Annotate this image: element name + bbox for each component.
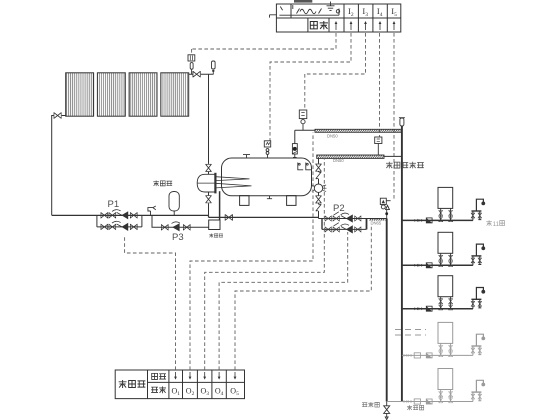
solar collector panel 1 (66, 73, 94, 116)
svg-text:DN50: DN50 (333, 158, 344, 163)
P3 drop pipe (152, 215, 209, 227)
input line I3 to makeup pipe sensor (305, 33, 366, 110)
P2 manifold left (321, 219, 323, 230)
svg-text:O3: O3 (201, 387, 210, 398)
floor branch 4 (402, 322, 485, 358)
tank drain pipe (219, 191, 221, 220)
branch 5 water heater (438, 369, 453, 390)
discharge insulation marks (369, 219, 386, 221)
floor branch 3 (402, 276, 485, 312)
valve on collector inlet (54, 113, 61, 119)
branch 5 heater stub valves (450, 390, 452, 402)
branch 2 check valve (426, 263, 432, 268)
branch 2 heater stub valves (450, 253, 452, 265)
branch 2 gate valves (414, 264, 417, 267)
level sensor LS on tank top (264, 141, 270, 158)
label 膨胀罐 (153, 181, 172, 187)
branch 4 heater stub valves (440, 343, 442, 355)
solar collector panel 4 (161, 73, 189, 116)
tank support leg right (287, 196, 296, 206)
branch 3 water heater (438, 276, 453, 297)
input row up-arrows (335, 21, 396, 30)
input line I2 to tank level sensor (270, 33, 351, 141)
label 上11层 (486, 220, 492, 226)
flexible joint upper (316, 172, 321, 179)
pipe stack riser (319, 158, 323, 218)
svg-text:O1: O1 (172, 387, 181, 398)
pipe chamber top stub (208, 172, 210, 174)
branch 3 faucet (472, 299, 474, 308)
svg-text:I5: I5 (391, 6, 397, 18)
tank top nozzle (243, 155, 250, 158)
branch 5 check valve (426, 399, 432, 404)
valve stack upper (316, 164, 322, 171)
table header labels I2 I3 I4 I5 (348, 6, 397, 18)
label 输入 (input) (310, 21, 328, 29)
P2 upper line (322, 218, 367, 220)
branch 4 pressure reducing valve (414, 353, 420, 358)
heater element cones (215, 177, 251, 188)
svg-text:DN65: DN65 (371, 221, 382, 226)
valve on tank drain line (225, 215, 232, 221)
output line O3 to pump P2 (205, 158, 325, 370)
sensor T1 above collector outlet (188, 55, 195, 74)
branch 5 heater stub valves (440, 390, 442, 402)
svg-text:P3: P3 (172, 232, 184, 243)
P3 valves (161, 225, 168, 230)
branch 2 heater stub valves (440, 253, 442, 265)
tank bottom tick (267, 196, 272, 199)
P1 manifold right (141, 215, 143, 227)
sensor T2 on makeup pipe (299, 110, 307, 130)
air vent at collector outlet (212, 61, 216, 74)
valve stack lower (316, 196, 322, 203)
sensor doodle in table header (270, 0, 340, 18)
label 控制器 (119, 380, 146, 388)
svg-text:11: 11 (493, 222, 500, 228)
pipe chamber bottom stub (208, 192, 210, 215)
svg-text:O2: O2 (186, 387, 195, 398)
controller output table frame (115, 370, 244, 399)
P2 discharge pipe (367, 218, 387, 220)
drain valve at bottom (384, 402, 390, 420)
branch 2 water heater (438, 232, 453, 253)
label 排污阀 (362, 402, 379, 407)
svg-text:DN50: DN50 (327, 134, 338, 139)
floor branch 1 (402, 187, 485, 223)
hot supply downpipe (386, 219, 388, 402)
branch 4 faucet (472, 346, 474, 355)
circulation pump (312, 184, 327, 192)
svg-text:O5: O5 (230, 387, 239, 398)
label 补液器 (209, 233, 223, 237)
solar collector panel 3 (129, 73, 157, 116)
P1 lower standby line (97, 226, 142, 228)
branch 1 water heater (438, 187, 453, 208)
pipe makeup feed down (294, 130, 296, 143)
P1 lower valves (101, 224, 108, 229)
collector outlet pipe top right (189, 74, 214, 164)
pipe branch 5 (387, 401, 473, 403)
branch 1 gate valves (414, 219, 417, 222)
solar collector panel 2 (97, 73, 125, 116)
heater flange (214, 173, 216, 194)
label 编号 (151, 386, 166, 393)
floor branch 2 (402, 232, 485, 267)
label 输出 (152, 373, 166, 379)
pipe makeup horizontal (295, 129, 315, 131)
branch 4 heater stub valves (450, 343, 452, 355)
P1 manifold left (96, 215, 98, 227)
motor valve on tank top (292, 144, 297, 158)
flexible joint lower (316, 204, 321, 211)
branch 1 check valve (426, 218, 432, 223)
P1 lower pump (check) (112, 221, 128, 231)
pipe branch 4 (402, 354, 473, 356)
branch 3 check valve (426, 306, 432, 311)
tank support leg left (240, 196, 249, 206)
electric heater chamber (197, 174, 215, 192)
safety lever on main line (148, 206, 156, 215)
P2 lower valves (325, 227, 331, 232)
P1 upper pump (check) (112, 210, 128, 220)
expansion tank (169, 192, 179, 216)
floor branch 5 (387, 369, 485, 405)
P3 pump (172, 222, 180, 232)
pressure switch assembly (380, 198, 390, 218)
branch 5 gate valves (404, 400, 407, 403)
branch 1 heater stub valves (450, 208, 452, 220)
svg-text:P2: P2 (333, 203, 345, 214)
make-up unit box (209, 220, 220, 230)
input line I4 to heat-exchange pipe sensor (379, 33, 381, 137)
P2 manifold right (366, 219, 368, 230)
tank body (222, 158, 312, 196)
pipe lower plain segment (384, 155, 402, 157)
input line I5 to pressure switch (393, 33, 395, 201)
output line O5 to pressure switch (235, 225, 371, 370)
branch 3 gate valves (414, 307, 417, 310)
break marks between floors (395, 330, 426, 336)
svg-text:P1: P1 (108, 199, 120, 210)
insulated pipe upper (315, 129, 402, 132)
P1 upper valves (101, 213, 108, 218)
input line I1 to collector sensor (192, 33, 336, 55)
pipe branch 2 (402, 264, 473, 266)
branch 4 water heater (438, 322, 453, 343)
level mark L1 inside tank (298, 163, 303, 170)
label 减压阀 (407, 405, 424, 410)
valve below heater chamber (206, 196, 212, 203)
svg-text:I4: I4 (377, 6, 383, 18)
branch 1 heater stub valves (440, 208, 442, 220)
P2 lower line (322, 228, 367, 230)
output cell down-arrows (174, 372, 236, 380)
sensor T3 on heat-exchange pipe (375, 137, 382, 155)
output labels O1..O5 (172, 387, 240, 398)
pipe branch 3 (402, 308, 473, 310)
valve on collector outlet (193, 71, 200, 77)
controller input table frame (276, 4, 400, 32)
svg-text:O4: O4 (215, 387, 224, 398)
branch 3 heater stub valves (450, 297, 452, 309)
output line O4 to pump P2 standby (219, 232, 348, 370)
collector inlet pipe bottom left (52, 116, 66, 216)
branch 4 check valve (426, 353, 432, 358)
cold water riser (401, 126, 403, 402)
valve above heater chamber (206, 164, 212, 171)
level mark L2 inside tank (306, 163, 311, 170)
output line O2 to makeup valve (190, 133, 313, 371)
branch 2 faucet (472, 256, 474, 265)
P2 lower pump (341, 224, 353, 234)
output line O1 to pump P1 (125, 237, 176, 371)
pipe branch 1 (402, 219, 473, 221)
branch 1 faucet (472, 211, 474, 220)
svg-text:I2: I2 (348, 6, 354, 18)
pipe: main loop horizontal (52, 214, 209, 216)
svg-text:I3: I3 (362, 6, 368, 18)
branch 3 heater stub valves (440, 297, 442, 309)
branch 5 pressure reducing valve (414, 399, 420, 404)
branch 4 gate valves (404, 354, 407, 357)
air vent on riser top (399, 118, 405, 126)
P2 upper pump (341, 213, 353, 223)
label 换热水补水 (386, 162, 424, 169)
P2 upper valves (325, 216, 331, 221)
branch 5 faucet (472, 392, 474, 401)
insulated pipe lower (317, 155, 384, 158)
